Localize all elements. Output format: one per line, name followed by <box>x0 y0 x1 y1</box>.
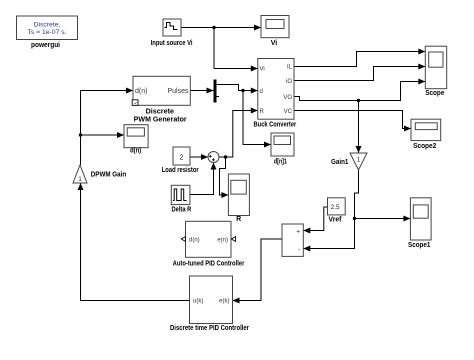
svg-text:IL: IL <box>287 65 293 71</box>
svg-text:R: R <box>236 216 241 223</box>
svg-text:Discrete,: Discrete, <box>34 21 61 28</box>
svg-text:d(n): d(n) <box>135 88 147 95</box>
svg-text:iO: iO <box>286 79 292 85</box>
svg-text:d: d <box>260 89 263 95</box>
svg-text:Scope2: Scope2 <box>413 143 436 150</box>
svg-text:Vi: Vi <box>260 67 265 73</box>
svg-text:Load resistor: Load resistor <box>162 167 199 174</box>
svg-text:e(n): e(n) <box>217 238 228 244</box>
svg-text:d[n]1: d[n]1 <box>274 158 287 165</box>
svg-text:Discrete time PID Controller: Discrete time PID Controller <box>170 325 249 332</box>
svg-text:Ts = 1e-07 s.: Ts = 1e-07 s. <box>27 29 66 36</box>
svg-text:Gain1: Gain1 <box>331 159 348 166</box>
svg-text:d(n): d(n) <box>130 148 141 155</box>
svg-text:Vref: Vref <box>329 217 343 224</box>
svg-text:Scope: Scope <box>425 90 444 97</box>
svg-text:Delta R: Delta R <box>171 206 191 213</box>
svg-text:Buck Converter: Buck Converter <box>254 122 297 129</box>
svg-text:PWM Generator: PWM Generator <box>134 117 187 124</box>
svg-text:Discrete: Discrete <box>146 109 174 116</box>
svg-text:Pulses: Pulses <box>167 88 189 95</box>
svg-text:Auto-tuned PID Controller: Auto-tuned PID Controller <box>173 261 245 268</box>
svg-text:+: + <box>296 229 300 236</box>
svg-text:DPWM Gain: DPWM Gain <box>91 171 126 178</box>
svg-text:e(k): e(k) <box>219 299 229 305</box>
svg-text:Vi: Vi <box>271 40 278 47</box>
svg-text:Scope1: Scope1 <box>408 242 430 249</box>
svg-text:Input source Vi: Input source Vi <box>151 40 193 47</box>
svg-text:VO: VO <box>283 95 292 101</box>
svg-text:d(n): d(n) <box>189 238 200 244</box>
svg-text:VC: VC <box>284 109 293 115</box>
svg-text:u(k): u(k) <box>193 299 203 305</box>
svg-text:powergui: powergui <box>31 42 60 49</box>
svg-text:-: - <box>298 246 300 253</box>
svg-text:R: R <box>260 109 265 115</box>
svg-text:2: 2 <box>180 155 184 162</box>
svg-text:2.5: 2.5 <box>331 204 340 211</box>
